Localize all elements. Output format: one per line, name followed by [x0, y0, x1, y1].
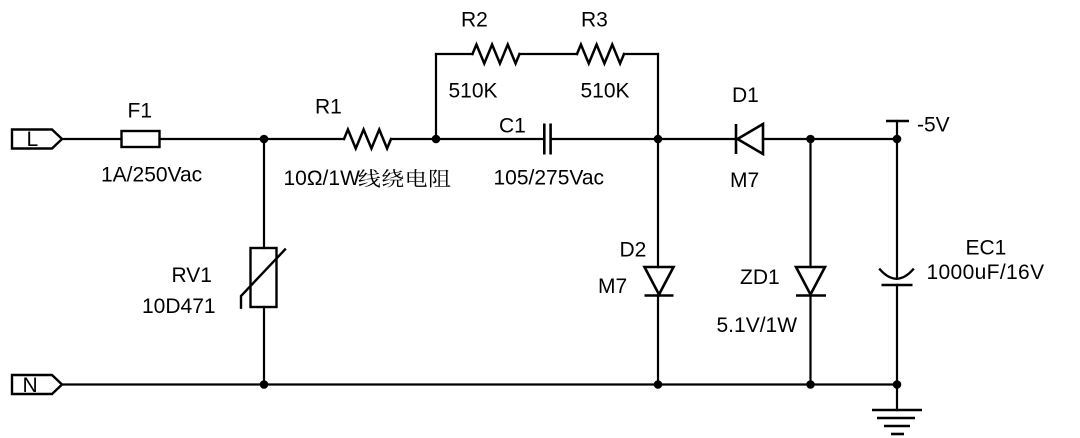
resistor R1 zigzag [344, 130, 391, 149]
wire: L terminal to fuse F1 [62, 138, 122, 140]
junction node D1/ZD1 [806, 135, 815, 144]
wire: ground stub [896, 385, 898, 411]
wire: top rail segment before R2 [436, 53, 473, 55]
fuse F1 body [122, 131, 160, 147]
diode D1 triangle (pointing left) [738, 124, 764, 154]
zener ZD1 cathode bar [796, 294, 826, 297]
junction node N/RV1 bottom [260, 380, 269, 389]
ground symbol bar 2 [877, 417, 915, 420]
svg-text:1000uF/16V: 1000uF/16V [927, 261, 1045, 284]
svg-text:R1: R1 [315, 96, 342, 119]
svg-text:M7: M7 [730, 169, 759, 192]
svg-text:R2: R2 [461, 9, 488, 32]
ground symbol bar 3 [884, 425, 910, 428]
diode D2 triangle (pointing down) [645, 267, 674, 295]
svg-text:C1: C1 [499, 115, 526, 138]
CJK char xian of 线绕电阻 (R1 value) [359, 169, 381, 187]
junction node EC1/ground [893, 380, 902, 389]
svg-text:F1: F1 [128, 100, 153, 123]
junction node L/RV1 [260, 135, 269, 144]
svg-text:510K: 510K [449, 80, 498, 103]
wire: D1 anode to -5V node (through node x=810.5) [763, 138, 897, 140]
wire: EC1 branch upper [896, 139, 898, 278]
svg-text:RV1: RV1 [172, 264, 212, 287]
wire: right vertical of R2/R3 loop [657, 54, 659, 139]
wire: ZD1 branch lower [809, 296, 811, 385]
diode D2 cathode bar [645, 294, 674, 297]
diode D1 cathode bar [735, 124, 738, 154]
CJK char dian of 线绕电阻 (R1 value) [408, 169, 427, 187]
svg-text:D2: D2 [620, 239, 647, 262]
svg-text:R3: R3 [581, 9, 608, 32]
varistor RV1 diagonal stroke with bent tail [241, 250, 285, 308]
wire: D2 branch lower [657, 296, 659, 385]
svg-text:10Ω/1W: 10Ω/1W [284, 167, 361, 190]
svg-text:10D471: 10D471 [142, 295, 216, 318]
wire: EC1 branch lower [896, 285, 898, 385]
power terminal -5V bar [886, 120, 909, 122]
svg-text:1A/250Vac: 1A/250Vac [101, 164, 202, 187]
wire: fuse F1 to R1 (through node at x=264) [160, 138, 345, 140]
electrolytic capacitor EC1 straight plate [882, 284, 913, 287]
power terminal -5V stub [896, 121, 898, 139]
wire: RV1 branch upper [263, 139, 265, 248]
svg-text:-5V: -5V [917, 114, 950, 137]
wire: bottom rail from N to ground node [62, 383, 897, 385]
wire: RV1 branch lower [263, 307, 265, 385]
junction node R1/R2 loop [432, 135, 441, 144]
svg-text:L: L [27, 128, 39, 151]
svg-text:N: N [23, 374, 38, 397]
wire: left vertical of R2/R3 loop [435, 54, 437, 139]
resistor R3 zigzag [577, 45, 624, 64]
electrolytic capacitor EC1 curved negative plate [880, 270, 913, 279]
junction node -5V/EC1 [893, 135, 902, 144]
ground symbol bar 1 [872, 409, 922, 412]
wire: top rail segment after R3 [624, 53, 658, 55]
svg-text:M7: M7 [598, 275, 627, 298]
capacitor C1 left plate [543, 124, 546, 155]
CJK char zu of 线绕电阻 (R1 value) [430, 169, 450, 187]
ground symbol bar 4 [891, 433, 904, 436]
resistor R2 zigzag [473, 45, 520, 64]
junction node C1/D1/D2 [654, 135, 663, 144]
wire: D2 branch upper [657, 139, 659, 267]
CJK char rao of 线绕电阻 (R1 value) [382, 169, 403, 187]
connector N (neutral input flag) [12, 375, 62, 394]
svg-text:510K: 510K [581, 80, 630, 103]
capacitor C1 right plate [549, 124, 552, 155]
varistor RV1 body [251, 248, 277, 307]
svg-text:5.1V/1W: 5.1V/1W [717, 314, 798, 337]
wire: ZD1 branch upper [809, 139, 811, 267]
svg-text:D1: D1 [732, 84, 759, 107]
wire: top rail segment between R2 and R3 [520, 53, 578, 55]
svg-text:105/275Vac: 105/275Vac [494, 167, 605, 190]
svg-text:EC1: EC1 [966, 237, 1007, 260]
junction node D2 bottom [654, 380, 663, 389]
zener ZD1 triangle (pointing down) [796, 267, 825, 295]
wire: C1 right plate to D1 cathode (through node x=658) [551, 138, 736, 140]
junction node ZD1 bottom [806, 380, 815, 389]
connector L (line input flag) [12, 130, 62, 149]
svg-text:ZD1: ZD1 [740, 266, 780, 289]
wire: R1 to C1 left plate (through node at x=436) [391, 138, 544, 140]
